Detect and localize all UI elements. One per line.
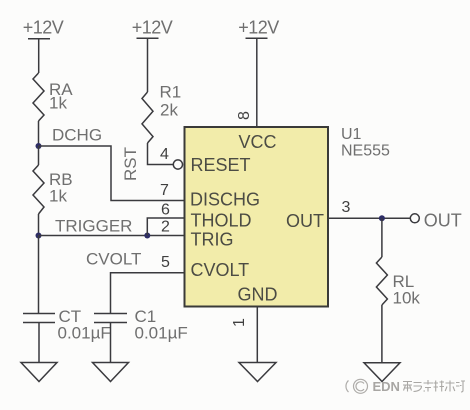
svg-text:TRIGGER: TRIGGER <box>55 217 132 236</box>
svg-text:RESET: RESET <box>191 155 251 175</box>
svg-text:TRIG: TRIG <box>191 230 234 250</box>
ground (CT) <box>21 363 57 382</box>
svg-text:U1: U1 <box>341 126 362 143</box>
svg-text:8: 8 <box>236 111 253 120</box>
resistor R1 <box>142 92 153 143</box>
resistor RL <box>376 257 387 305</box>
pin 4 reset bubble <box>173 160 182 169</box>
resistor RA <box>33 73 44 121</box>
svg-text:5: 5 <box>161 254 170 271</box>
node pin2/pin6 junction dot <box>144 233 150 239</box>
svg-text:OUT: OUT <box>424 211 462 231</box>
wire DCHG to pin 7 <box>39 146 185 201</box>
resistor RL labels RL 10k <box>393 272 421 308</box>
wire CVOLT pin 5 to C1 <box>111 273 185 314</box>
svg-text:7: 7 <box>160 182 169 199</box>
wire R1 to pin 4 bubble <box>148 143 174 165</box>
wire pin 1 to ground <box>256 307 258 363</box>
svg-text:6: 6 <box>161 202 170 219</box>
svg-text:2k: 2k <box>160 101 178 120</box>
svg-text:+12V: +12V <box>23 18 64 38</box>
resistor RB labels RB 1k <box>49 170 73 206</box>
IC reference U1 NE555 <box>341 126 390 160</box>
capacitor CT <box>23 314 55 323</box>
power +12V rail 3 (right) <box>246 38 268 127</box>
svg-text:NE555: NE555 <box>341 143 390 160</box>
svg-text:GND: GND <box>238 285 278 305</box>
wire OUT node to RL <box>381 218 383 257</box>
wire TRIGGER node down to CT <box>38 236 40 314</box>
capacitor C1 <box>94 314 127 323</box>
OUT terminal circle <box>410 214 419 223</box>
svg-text:0.01µF: 0.01µF <box>135 324 188 343</box>
svg-text:DISCHG: DISCHG <box>190 190 260 210</box>
wire TRIGGER to pin 2 <box>39 235 185 237</box>
op-amp U1 IC body NE555 <box>185 127 329 307</box>
ground (C1) <box>93 363 129 382</box>
ground (RL) <box>364 363 400 382</box>
svg-text:EDN: EDN <box>373 379 400 394</box>
svg-text:4: 4 <box>160 146 169 163</box>
wire RL to ground <box>381 305 383 363</box>
wire DCHG node to RB <box>38 146 40 165</box>
wire RB to TRIGGER node <box>38 214 40 236</box>
wire RA to DCHG node <box>38 121 40 146</box>
svg-text:10k: 10k <box>393 289 421 308</box>
watermark CJK-like glyph blocks <box>403 380 465 392</box>
resistor R1 labels R1 2k <box>160 83 182 120</box>
svg-text:OUT: OUT <box>286 211 324 231</box>
svg-text:+12V: +12V <box>238 18 279 38</box>
svg-text:0.01µF: 0.01µF <box>58 324 111 343</box>
ground (pin 1) <box>239 363 276 382</box>
resistor RB <box>33 165 44 214</box>
svg-text:R1: R1 <box>160 83 182 102</box>
wire C1 to ground <box>110 323 112 363</box>
svg-text:2: 2 <box>161 219 170 236</box>
power +12V rail 1 (left) <box>28 39 50 73</box>
node DCHG junction dot <box>36 143 42 149</box>
svg-text:VCC: VCC <box>238 132 276 152</box>
svg-text:+12V: +12V <box>132 18 173 38</box>
svg-text:DCHG: DCHG <box>52 126 102 145</box>
node TRIGGER junction dot <box>36 233 42 239</box>
svg-text:RST: RST <box>121 147 140 181</box>
svg-text:3: 3 <box>342 199 351 216</box>
svg-text:1k: 1k <box>49 187 67 206</box>
svg-text:CVOLT: CVOLT <box>86 250 141 269</box>
svg-text:THOLD: THOLD <box>191 211 252 231</box>
svg-text:CVOLT: CVOLT <box>191 260 250 280</box>
wire pin 6 link <box>147 218 184 236</box>
svg-text:1: 1 <box>231 318 248 327</box>
node OUT junction dot <box>379 215 385 221</box>
resistor RA labels RA 1k <box>49 80 73 113</box>
power +12V rail 2 (middle) <box>137 38 159 92</box>
svg-text:1k: 1k <box>49 94 67 113</box>
capacitor CT labels CT 0.01uF <box>58 307 111 343</box>
capacitor C1 labels C1 0.01uF <box>135 307 188 343</box>
wire pin 3 to OUT terminal <box>328 217 410 219</box>
watermark EDN logo <box>346 379 368 393</box>
wire CT to ground <box>38 323 40 363</box>
